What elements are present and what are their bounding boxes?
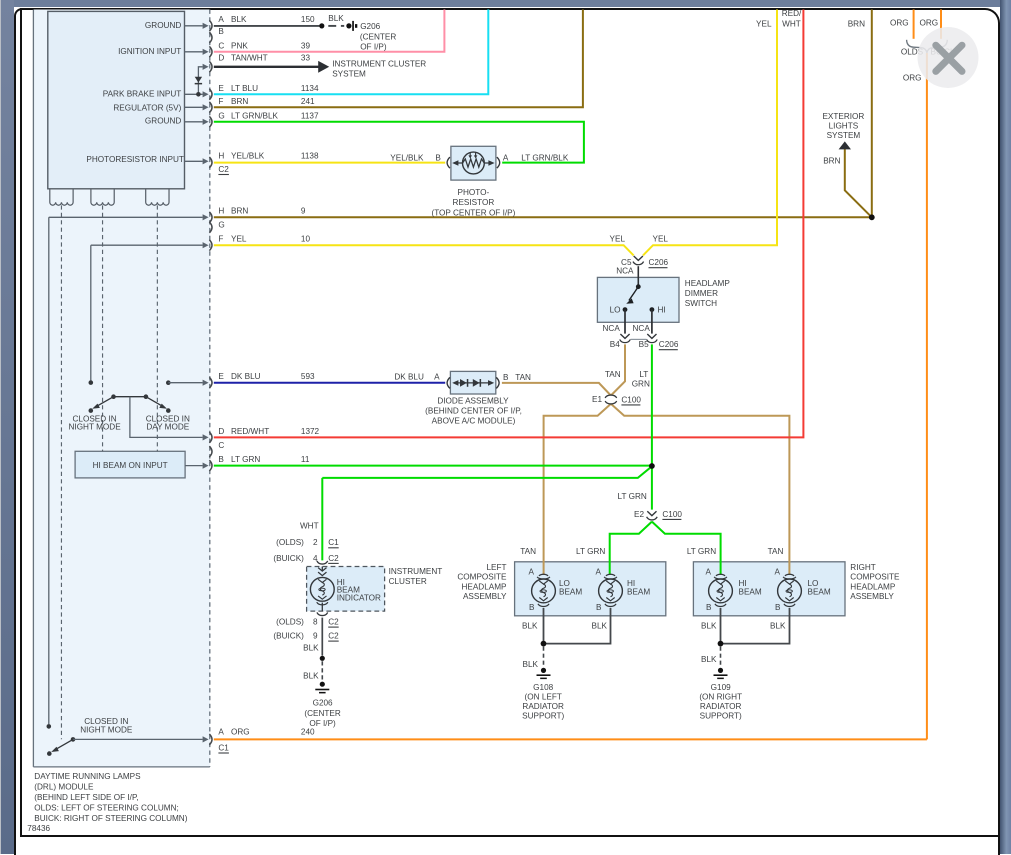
svg-text:RADIATOR: RADIATOR <box>522 702 564 711</box>
svg-text:B: B <box>218 27 224 36</box>
svg-text:TAN/WHT: TAN/WHT <box>231 54 268 63</box>
svg-text:TAN: TAN <box>605 370 621 379</box>
svg-text:(BEHIND CENTER OF I/P,: (BEHIND CENTER OF I/P, <box>425 407 522 416</box>
svg-text:(OLDS): (OLDS) <box>276 538 304 547</box>
svg-text:ORG: ORG <box>231 728 250 737</box>
svg-text:NCA: NCA <box>616 267 634 276</box>
svg-text:C2: C2 <box>328 618 339 627</box>
svg-text:RIGHT: RIGHT <box>850 563 875 572</box>
svg-text:33: 33 <box>301 54 311 63</box>
svg-text:NIGHT MODE: NIGHT MODE <box>80 725 133 734</box>
svg-text:DK BLU: DK BLU <box>231 372 261 381</box>
svg-text:GROUND: GROUND <box>145 117 181 126</box>
svg-text:WHT: WHT <box>782 20 801 29</box>
svg-text:LEFT: LEFT <box>486 563 506 572</box>
svg-text:TAN: TAN <box>768 547 784 556</box>
svg-text:A: A <box>434 372 440 381</box>
svg-text:LT GRN: LT GRN <box>618 492 647 501</box>
svg-text:(OLDS): (OLDS) <box>276 618 304 627</box>
svg-text:COMPOSITE: COMPOSITE <box>457 573 507 582</box>
svg-text:4: 4 <box>313 554 318 563</box>
svg-text:BLK: BLK <box>770 622 786 631</box>
svg-text:H: H <box>218 207 224 216</box>
svg-text:INSTRUMENT: INSTRUMENT <box>389 567 443 576</box>
svg-text:C1: C1 <box>328 538 339 547</box>
svg-text:G109: G109 <box>711 683 731 692</box>
svg-text:LT GRN: LT GRN <box>231 455 260 464</box>
svg-text:G206: G206 <box>313 699 333 708</box>
svg-text:B5: B5 <box>639 340 649 349</box>
svg-text:1138: 1138 <box>301 151 319 160</box>
svg-text:LIGHTS: LIGHTS <box>829 122 859 131</box>
svg-text:8: 8 <box>313 618 318 627</box>
svg-text:PHOTO-: PHOTO- <box>458 188 490 197</box>
svg-text:C206: C206 <box>649 258 669 267</box>
svg-text:SYSTEM: SYSTEM <box>827 131 861 140</box>
svg-text:(BEHIND LEFT SIDE OF I/P,: (BEHIND LEFT SIDE OF I/P, <box>34 793 138 802</box>
svg-text:BEAM: BEAM <box>739 587 762 596</box>
svg-text:YEL/BLK: YEL/BLK <box>231 151 265 160</box>
svg-text:C100: C100 <box>621 395 641 404</box>
svg-text:C2: C2 <box>328 554 339 563</box>
svg-text:BEAM: BEAM <box>559 587 582 596</box>
svg-text:DK BLU: DK BLU <box>394 372 424 381</box>
svg-text:TAN: TAN <box>520 547 536 556</box>
svg-text:B: B <box>529 603 535 612</box>
svg-text:A: A <box>218 728 224 737</box>
svg-text:E1: E1 <box>592 395 602 404</box>
svg-text:ASSEMBLY: ASSEMBLY <box>850 592 894 601</box>
svg-text:BLK: BLK <box>303 644 319 653</box>
svg-text:BLK: BLK <box>303 672 319 681</box>
svg-text:PHOTORESISTOR INPUT: PHOTORESISTOR INPUT <box>86 155 184 164</box>
svg-text:BLK: BLK <box>523 660 539 669</box>
svg-text:LO: LO <box>610 305 621 314</box>
svg-text:11: 11 <box>301 455 310 464</box>
svg-text:E: E <box>218 372 224 381</box>
svg-text:C2: C2 <box>218 165 229 174</box>
svg-text:DAY MODE: DAY MODE <box>146 423 189 432</box>
svg-text:150: 150 <box>301 15 315 24</box>
svg-text:H: H <box>218 151 224 160</box>
svg-text:DIMMER: DIMMER <box>685 289 718 298</box>
svg-text:E: E <box>218 84 224 93</box>
svg-text:HEADLAMP: HEADLAMP <box>461 582 507 591</box>
svg-text:B: B <box>775 603 781 612</box>
svg-text:B: B <box>596 603 602 612</box>
svg-text:BUICK: RIGHT OF STEERING COLUM: BUICK: RIGHT OF STEERING COLUMN) <box>34 814 187 823</box>
svg-text:(DRL) MODULE: (DRL) MODULE <box>34 782 94 791</box>
svg-text:WHT: WHT <box>300 521 319 530</box>
svg-text:LT: LT <box>639 370 648 379</box>
svg-text:REGULATOR (5V): REGULATOR (5V) <box>113 104 181 113</box>
svg-text:G206: G206 <box>360 22 380 31</box>
svg-text:TAN: TAN <box>515 373 531 382</box>
svg-text:BLK: BLK <box>701 622 717 631</box>
svg-text:BRN: BRN <box>231 207 248 216</box>
svg-text:LT BLU: LT BLU <box>231 84 258 93</box>
svg-text:PNK: PNK <box>231 42 248 51</box>
svg-text:241: 241 <box>301 97 315 106</box>
svg-text:C1: C1 <box>218 743 229 752</box>
svg-text:RED/: RED/ <box>782 9 802 18</box>
svg-text:SUPPORT): SUPPORT) <box>700 712 742 721</box>
svg-text:YEL: YEL <box>653 235 669 244</box>
svg-text:BEAM: BEAM <box>808 587 831 596</box>
svg-text:593: 593 <box>301 372 315 381</box>
svg-text:C100: C100 <box>662 510 682 519</box>
svg-text:HEADLAMP: HEADLAMP <box>685 279 731 288</box>
svg-text:BLK: BLK <box>522 622 538 631</box>
svg-text:240: 240 <box>301 728 315 737</box>
svg-text:RED/WHT: RED/WHT <box>231 427 269 436</box>
svg-text:SYSTEM: SYSTEM <box>332 69 366 78</box>
svg-text:RADIATOR: RADIATOR <box>700 702 742 711</box>
svg-text:G: G <box>218 111 224 120</box>
svg-text:(CENTER: (CENTER <box>360 32 396 41</box>
svg-text:YEL: YEL <box>610 235 626 244</box>
svg-text:LT GRN: LT GRN <box>576 547 605 556</box>
svg-text:YEL: YEL <box>231 235 247 244</box>
svg-text:LT GRN: LT GRN <box>687 547 716 556</box>
svg-text:A: A <box>706 567 712 576</box>
svg-text:B: B <box>503 373 509 382</box>
svg-text:(BUICK): (BUICK) <box>273 632 304 641</box>
svg-text:NCA: NCA <box>603 324 621 333</box>
svg-text:(BUICK): (BUICK) <box>273 554 304 563</box>
svg-text:A: A <box>503 154 509 163</box>
svg-text:C2: C2 <box>328 632 339 641</box>
svg-text:D: D <box>218 427 224 436</box>
svg-text:PARK BRAKE INPUT: PARK BRAKE INPUT <box>103 90 182 99</box>
svg-text:C: C <box>218 441 224 450</box>
svg-text:LT GRN/BLK: LT GRN/BLK <box>521 154 569 163</box>
svg-text:(CENTER: (CENTER <box>304 709 340 718</box>
svg-text:OLDS: LEFT OF STEERING COLUMN;: OLDS: LEFT OF STEERING COLUMN; <box>34 803 179 812</box>
svg-text:C5: C5 <box>621 258 632 267</box>
svg-text:A: A <box>596 567 602 576</box>
svg-text:HEADLAMP: HEADLAMP <box>850 582 896 591</box>
svg-text:39: 39 <box>301 42 311 51</box>
svg-text:ASSEMBLY: ASSEMBLY <box>463 592 507 601</box>
svg-text:BRN: BRN <box>823 157 840 166</box>
svg-text:DAYTIME RUNNING LAMPS: DAYTIME RUNNING LAMPS <box>34 772 141 781</box>
svg-text:ORG: ORG <box>890 18 909 27</box>
svg-text:OF I/P): OF I/P) <box>360 42 387 51</box>
svg-text:9: 9 <box>301 207 306 216</box>
svg-text:B4: B4 <box>610 340 620 349</box>
svg-text:GRN: GRN <box>632 380 650 389</box>
svg-text:B: B <box>706 603 712 612</box>
svg-text:DIODE ASSEMBLY: DIODE ASSEMBLY <box>437 397 509 406</box>
svg-text:INDICATOR: INDICATOR <box>337 594 381 603</box>
svg-text:F: F <box>218 235 223 244</box>
svg-text:NIGHT MODE: NIGHT MODE <box>69 423 122 432</box>
svg-text:BLK: BLK <box>592 622 608 631</box>
svg-text:CLUSTER: CLUSTER <box>389 577 427 586</box>
svg-text:2: 2 <box>313 538 318 547</box>
svg-text:(ON LEFT: (ON LEFT <box>525 693 562 702</box>
svg-text:B: B <box>218 455 224 464</box>
svg-text:IGNITION INPUT: IGNITION INPUT <box>118 47 181 56</box>
svg-text:(ON RIGHT: (ON RIGHT <box>699 693 742 702</box>
svg-text:1137: 1137 <box>301 111 319 120</box>
svg-text:G108: G108 <box>533 683 553 692</box>
svg-text:INSTRUMENT CLUSTER: INSTRUMENT CLUSTER <box>332 60 426 69</box>
svg-text:10: 10 <box>301 235 311 244</box>
svg-text:ORG: ORG <box>903 74 922 83</box>
svg-text:YEL: YEL <box>756 19 772 28</box>
svg-text:BEAM: BEAM <box>627 587 650 596</box>
svg-text:LT GRN/BLK: LT GRN/BLK <box>231 111 279 120</box>
svg-text:BRN: BRN <box>231 97 248 106</box>
svg-text:1372: 1372 <box>301 427 320 436</box>
svg-text:BLK: BLK <box>701 655 717 664</box>
svg-text:BLK: BLK <box>231 15 247 24</box>
svg-text:9: 9 <box>313 632 318 641</box>
svg-text:HI: HI <box>658 305 666 314</box>
svg-text:ABOVE A/C MODULE): ABOVE A/C MODULE) <box>432 417 516 426</box>
svg-text:ORG: ORG <box>919 18 938 27</box>
svg-text:A: A <box>529 567 535 576</box>
svg-text:BLK: BLK <box>328 14 344 23</box>
svg-text:COMPOSITE: COMPOSITE <box>850 573 900 582</box>
svg-text:EXTERIOR: EXTERIOR <box>822 112 864 121</box>
svg-text:SWITCH: SWITCH <box>685 299 717 308</box>
svg-text:(TOP CENTER OF I/P): (TOP CENTER OF I/P) <box>431 208 515 217</box>
svg-text:A: A <box>218 15 224 24</box>
svg-text:F: F <box>218 97 223 106</box>
svg-text:GROUND: GROUND <box>145 21 181 30</box>
svg-text:A: A <box>775 567 781 576</box>
svg-text:1134: 1134 <box>301 84 319 93</box>
svg-text:SUPPORT): SUPPORT) <box>522 712 564 721</box>
svg-text:D: D <box>218 54 224 63</box>
svg-text:BRN: BRN <box>848 19 865 28</box>
svg-text:RESISTOR: RESISTOR <box>453 198 495 207</box>
svg-text:HI BEAM ON INPUT: HI BEAM ON INPUT <box>93 461 168 470</box>
svg-text:C: C <box>218 42 224 51</box>
svg-text:C206: C206 <box>659 340 679 349</box>
svg-text:B: B <box>435 154 441 163</box>
svg-text:NCA: NCA <box>633 324 651 333</box>
svg-text:YEL/BLK: YEL/BLK <box>390 154 424 163</box>
svg-text:E2: E2 <box>634 510 644 519</box>
svg-text:OF I/P): OF I/P) <box>309 719 336 728</box>
svg-text:78436: 78436 <box>27 824 50 833</box>
svg-text:G: G <box>218 220 224 229</box>
